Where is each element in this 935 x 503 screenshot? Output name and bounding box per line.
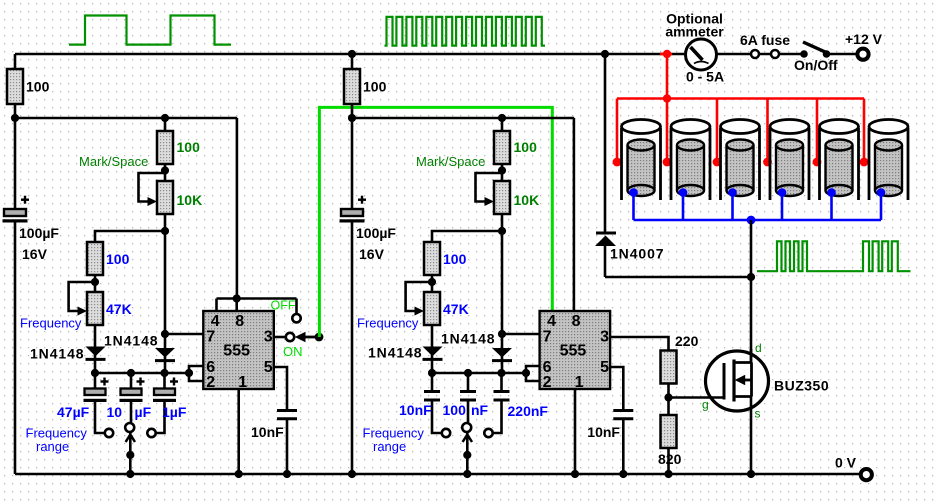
label 100 for R13 xyxy=(106,251,130,267)
svg-text:Frequency: Frequency xyxy=(20,316,82,331)
wire +12V top supply bus xyxy=(15,53,858,56)
pin 8 label U2 xyxy=(572,313,581,330)
label 47K for VR12 xyxy=(106,301,132,317)
wire pin5 U1 xyxy=(274,367,287,411)
svg-text:1N4148: 1N4148 xyxy=(441,331,495,347)
node red bus junction xyxy=(663,94,671,102)
label 10K for VR11 xyxy=(177,192,203,208)
node caps bus junction B osc 2 xyxy=(464,369,472,377)
svg-text:2: 2 xyxy=(543,374,552,391)
wire timing chain vertical osc 1 xyxy=(164,118,167,373)
waveform gated pulse bursts (output to cells) xyxy=(757,241,911,271)
label 10nF xyxy=(399,402,432,418)
svg-text:10nF: 10nF xyxy=(399,402,432,418)
transistor Q1 BUZ350 body xyxy=(706,351,769,411)
terminal range select right osc 1 xyxy=(147,429,155,437)
node pin1 ground junction osc 1 xyxy=(235,470,243,478)
svg-text:10nF: 10nF xyxy=(251,424,284,440)
svg-text:100: 100 xyxy=(443,251,467,267)
pin 6 label U2 xyxy=(543,359,552,376)
terminal +12V xyxy=(857,49,868,60)
label 10nF for C25 xyxy=(587,424,620,440)
svg-text:100: 100 xyxy=(106,251,130,267)
label Frequency (range) osc 2 xyxy=(363,426,425,441)
pin 1 label U2 xyxy=(575,374,584,391)
node drain wire junction xyxy=(747,273,755,281)
capacitor C13 10uF electrolytic xyxy=(120,373,145,423)
wire pot to diode D11 xyxy=(94,325,97,373)
wire drain inside xyxy=(750,349,753,363)
label 1N4007 xyxy=(610,246,664,262)
label 1uF xyxy=(162,404,187,420)
wire gate xyxy=(669,396,723,399)
label 1N4148 for D22 xyxy=(441,331,495,347)
node wiper junction osc 2 xyxy=(463,451,471,459)
op-amp timer U1 555 body xyxy=(203,311,273,389)
label +12 V xyxy=(845,31,883,47)
label 47K for VR22 xyxy=(443,301,469,317)
waveform slow square wave (oscillator 1 output) xyxy=(69,16,231,45)
node caps bus junction D osc 1 xyxy=(185,369,193,377)
resistor R21 100 (supply dropper) xyxy=(344,69,360,104)
svg-text:µF: µF xyxy=(135,404,152,420)
diode D11 1N4148 xyxy=(86,347,106,360)
label BUZ350 xyxy=(774,378,829,394)
cell 1 outer jar xyxy=(622,120,661,201)
wire blue cathode drop 5 xyxy=(830,193,833,221)
pin 7 label U1 xyxy=(206,329,215,346)
svg-text:100: 100 xyxy=(26,79,50,95)
node red anode contact 4 xyxy=(763,158,772,167)
label ammeter xyxy=(665,24,724,40)
label range osc 1 xyxy=(36,439,69,454)
pin 2 label U2 xyxy=(543,374,552,391)
cell 3 outer jar xyxy=(721,120,760,201)
node red supply tap xyxy=(663,50,671,58)
wire blue cathode drop 2 xyxy=(682,193,685,221)
svg-text:10K: 10K xyxy=(514,192,540,208)
node blue cathode contact 5 xyxy=(827,188,836,197)
transistor Q1 internals xyxy=(724,360,752,402)
cell 4 inner electrode xyxy=(776,140,803,197)
svg-text:1µF: 1µF xyxy=(162,404,187,420)
label 820 for R6 xyxy=(658,451,682,467)
pin 8 label U1 xyxy=(235,313,244,330)
pin 2 label U1 xyxy=(206,374,215,391)
wire red anode drop 5 xyxy=(816,99,819,163)
node R13/VR12 junction xyxy=(91,278,99,286)
pin 3 label U2 xyxy=(600,329,609,346)
node rail ground junction osc 2 xyxy=(348,470,356,478)
pin 5 label U1 xyxy=(264,359,273,376)
diode D22 1N4148 xyxy=(492,348,512,361)
svg-text:100µF: 100µF xyxy=(356,225,396,241)
potentiometer VR11 10K mark/space xyxy=(139,173,174,214)
wire pin7 U1 to timing chain xyxy=(165,333,203,336)
wire blue cathode bus xyxy=(634,219,882,222)
pin 5 label U2 xyxy=(600,359,609,376)
wire left supply rail oscillator 2 upper xyxy=(351,54,354,210)
node red anode contact 1 xyxy=(613,158,622,167)
node wiper junction osc 1 xyxy=(126,451,134,459)
node pin5 cap ground junction osc 2 xyxy=(619,470,627,478)
label 10 (10uF left part) xyxy=(107,404,123,420)
node timing chain top junction osc 1 xyxy=(161,114,169,122)
label g (gate) xyxy=(702,398,709,412)
wire green enable link (osc1 out to osc2 reset) xyxy=(319,107,552,337)
svg-text:Mark/Space: Mark/Space xyxy=(416,154,485,169)
pin 7 label U2 xyxy=(543,329,552,346)
terminal range select mid osc 1 xyxy=(125,423,134,432)
node pin7 junction osc 1 xyxy=(161,330,169,338)
svg-text:2: 2 xyxy=(206,374,215,391)
svg-text:3: 3 xyxy=(600,329,609,346)
node R22/pot junction xyxy=(498,166,506,174)
terminal 0V xyxy=(861,469,872,480)
svg-text:16V: 16V xyxy=(22,246,48,262)
svg-text:Frequency: Frequency xyxy=(357,316,419,331)
label 100uF for C11 xyxy=(19,225,59,241)
svg-text:On/Off: On/Off xyxy=(794,57,838,73)
wire 555 pins 6-2 bracket osc 2 xyxy=(526,366,540,381)
node switch to green wire junction xyxy=(315,333,324,342)
wire blue cathode drop 4 xyxy=(781,193,784,221)
label 0 - 5A xyxy=(686,69,724,85)
wire red anode drop 2 xyxy=(666,99,669,163)
switch S1 On/Off xyxy=(800,42,830,58)
pin 6 label U1 xyxy=(206,359,215,376)
node top bus to diode junction xyxy=(601,50,609,58)
wire left supply rail oscillator 1 upper xyxy=(14,54,17,210)
wire drain line xyxy=(750,220,753,364)
node caps bus junction B osc 1 xyxy=(127,369,135,377)
wire 0V bottom ground bus xyxy=(15,473,861,476)
label Optional xyxy=(666,11,723,27)
wire timing capacitor bus osc 2 xyxy=(432,372,526,375)
label 6A fuse xyxy=(740,32,790,48)
wire local bus oscillator 1 xyxy=(15,118,237,299)
wire local bus oscillator 2 xyxy=(352,118,574,311)
cell 6 outer jar xyxy=(869,120,908,201)
label On/Off xyxy=(794,57,838,73)
label 16V for C21 xyxy=(359,246,385,262)
cell 3 inner electrode xyxy=(727,140,754,197)
wire diode feed vertical xyxy=(604,54,607,232)
resistor R11 100 (supply dropper) xyxy=(7,69,23,104)
capacitor C12 47uF electrolytic xyxy=(84,373,109,433)
label ON xyxy=(283,344,303,359)
node gate junction xyxy=(664,393,672,401)
wire 555 pins 6-2 bracket osc 1 xyxy=(189,366,203,381)
wire pin3 U1 to switch xyxy=(274,336,286,339)
cell 2 inner electrode xyxy=(677,140,704,197)
cell 5 outer jar xyxy=(820,120,859,201)
wire red anode drop 6 xyxy=(863,99,866,163)
capacitor C15 10nF (pin5) xyxy=(277,411,297,475)
node blue bus center junction xyxy=(747,216,756,225)
node blue cathode contact 1 xyxy=(629,188,638,197)
svg-text:0 V: 0 V xyxy=(835,455,857,471)
svg-text:7: 7 xyxy=(543,329,552,346)
svg-text:ON: ON xyxy=(283,344,303,359)
svg-text:100: 100 xyxy=(443,402,467,418)
svg-text:100: 100 xyxy=(514,139,538,155)
node source ground junction xyxy=(747,470,755,478)
label d (drain) xyxy=(755,341,762,355)
wire diode to drain node xyxy=(605,276,751,279)
resistor R12 100 green (mark/space upper) xyxy=(157,131,173,164)
node caps bus junction A osc 1 xyxy=(91,369,99,377)
cell 6 inner electrode xyxy=(875,140,902,197)
svg-text:47K: 47K xyxy=(443,301,469,317)
pin 1 label U1 xyxy=(238,374,247,391)
node caps bus junction A osc 2 xyxy=(428,369,436,377)
label nF (100nF right part) xyxy=(471,402,489,418)
wire R13 to pot xyxy=(94,275,97,292)
label 10nF for C15 xyxy=(251,424,284,440)
pin 3 label U1 xyxy=(264,329,273,346)
svg-text:ammeter: ammeter xyxy=(665,24,724,40)
node red anode contact 5 xyxy=(813,158,822,167)
svg-text:10K: 10K xyxy=(177,192,203,208)
switch wiper frequency range osc 2 xyxy=(463,433,472,474)
wire red anode drop 1 xyxy=(616,99,619,163)
svg-text:100: 100 xyxy=(363,79,387,95)
capacitor C11 100uF 16V electrolytic xyxy=(3,196,30,223)
terminal range select left osc 2 xyxy=(442,429,450,437)
svg-text:4: 4 xyxy=(211,313,220,330)
node top bus osc2 junction xyxy=(348,50,356,58)
wire R13 top to timing chain xyxy=(95,231,165,242)
resistor R13 100 blue (frequency upper) xyxy=(87,242,103,275)
label uF (10uF right part) xyxy=(135,404,152,420)
svg-text:1N4148: 1N4148 xyxy=(30,346,84,362)
wire pin5 U2 xyxy=(610,367,623,411)
wire divider middle xyxy=(667,384,670,416)
label Frequency (range) osc 1 xyxy=(26,426,88,441)
wire red anode drop 3 xyxy=(716,99,719,163)
label OFF xyxy=(271,299,296,313)
node blue cathode contact 4 xyxy=(778,188,787,197)
label 47uF xyxy=(57,404,90,420)
node blue cathode contact 2 xyxy=(679,188,688,197)
node timing chain / R13 wire junction xyxy=(161,227,169,235)
wire red anode drop 4 xyxy=(766,99,769,163)
label 1N4148 for D21 xyxy=(368,345,422,361)
wire blue cathode drop 1 xyxy=(632,193,635,221)
wire red feed down xyxy=(666,54,669,99)
wire pins 4/8 top tee U1 xyxy=(217,299,297,315)
svg-text:47µF: 47µF xyxy=(57,404,90,420)
label 1N4148 for D11 xyxy=(30,346,84,362)
svg-text:3: 3 xyxy=(264,329,273,346)
wire source line xyxy=(750,397,753,475)
svg-text:100µF: 100µF xyxy=(19,225,59,241)
svg-text:4: 4 xyxy=(547,313,556,330)
svg-text:220nF: 220nF xyxy=(508,403,549,419)
node R6 ground junction xyxy=(664,470,672,478)
label 100 for R21 xyxy=(363,79,387,95)
svg-text:10nF: 10nF xyxy=(587,424,620,440)
wire left supply rail oscillator 2 lower xyxy=(351,221,354,474)
svg-text:1N4007: 1N4007 xyxy=(610,246,664,262)
label Mark/Space osc 2 xyxy=(416,154,485,169)
node caps bus junction D osc 2 xyxy=(522,369,530,377)
capacitor C24 220nF ceramic xyxy=(494,373,510,433)
svg-text:8: 8 xyxy=(572,313,581,330)
wire blue cathode drop 3 xyxy=(731,193,734,221)
cell 1 inner electrode xyxy=(628,140,655,197)
wire R23 top to timing chain xyxy=(432,231,502,242)
svg-text:220: 220 xyxy=(675,333,699,349)
svg-text:555: 555 xyxy=(223,343,250,360)
cell 2 outer jar xyxy=(671,120,710,201)
resistor R6 820 (gate lower) xyxy=(661,415,677,448)
wire R6 to ground xyxy=(667,448,670,474)
terminal range select right osc 2 xyxy=(484,429,492,437)
node caps bus junction C osc 2 xyxy=(497,369,505,377)
terminal range select left osc 1 xyxy=(105,429,113,437)
svg-text:range: range xyxy=(373,439,406,454)
node red anode contact 3 xyxy=(713,158,722,167)
op-amp timer U2 555 body xyxy=(540,311,611,389)
pin 4 label U2 xyxy=(547,313,556,330)
wire pin7 U2 to timing chain xyxy=(502,333,540,336)
node timing chain / R23 wire junction xyxy=(498,227,506,235)
terminal OFF xyxy=(292,314,300,322)
node red anode contact 6 xyxy=(860,158,869,167)
cell 4 outer jar xyxy=(770,120,809,201)
pin 4 label U1 xyxy=(211,313,220,330)
svg-text:1N4148: 1N4148 xyxy=(104,333,158,349)
svg-text:555: 555 xyxy=(560,343,587,360)
node pins 4/8 tee junction xyxy=(233,294,241,302)
svg-text:5: 5 xyxy=(600,359,609,376)
label 100 for R23 xyxy=(443,251,467,267)
fuse F1 6A xyxy=(751,50,779,58)
label Frequency (pot) osc 2 xyxy=(357,316,419,331)
wire pin1 U1 to ground xyxy=(237,389,240,474)
label 220nF xyxy=(508,403,549,419)
svg-text:5: 5 xyxy=(264,359,273,376)
svg-text:100: 100 xyxy=(177,139,201,155)
svg-text:16V: 16V xyxy=(359,246,385,262)
label Mark/Space osc 1 xyxy=(79,154,148,169)
svg-text:d: d xyxy=(755,341,762,355)
label 100 (100nF left part) xyxy=(443,402,467,418)
potentiometer VR21 10K mark/space xyxy=(476,173,511,214)
svg-text:g: g xyxy=(702,398,709,412)
diode D12 1N4148 xyxy=(155,348,175,361)
svg-text:nF: nF xyxy=(471,402,489,418)
wire timing capacitor bus osc 1 xyxy=(95,372,189,375)
svg-text:+12 V: +12 V xyxy=(845,31,883,47)
switch run/stop arm xyxy=(295,332,319,342)
svg-text:BUZ350: BUZ350 xyxy=(774,378,829,394)
meter M1 ammeter xyxy=(686,39,717,70)
label 100 for R12 xyxy=(177,139,201,155)
wire left supply rail oscillator 1 lower xyxy=(14,221,17,474)
resistor R5 220 (gate upper) xyxy=(661,351,677,384)
capacitor C25 10nF (pin5) xyxy=(613,411,633,475)
node timing chain top junction osc 2 xyxy=(498,114,506,122)
svg-text:1: 1 xyxy=(238,374,247,391)
label Frequency (pot) osc 1 xyxy=(20,316,82,331)
node pin5 cap ground junction osc 1 xyxy=(283,470,291,478)
node wiper ground junction osc 1 xyxy=(126,470,134,478)
svg-text:s: s xyxy=(755,407,761,421)
svg-text:10: 10 xyxy=(107,404,123,420)
wire R23 to pot xyxy=(431,275,434,292)
capacitor C23 100nF ceramic xyxy=(460,373,476,423)
wire timing chain vertical osc 2 xyxy=(501,118,504,373)
label 16V for C11 xyxy=(22,246,48,262)
label 1N4148 for D12 xyxy=(104,333,158,349)
label 220 for R5 xyxy=(675,333,699,349)
node pin1 ground junction osc 2 xyxy=(571,470,579,478)
svg-text:6A fuse: 6A fuse xyxy=(740,32,790,48)
svg-text:Mark/Space: Mark/Space xyxy=(79,154,148,169)
label 555 U1 xyxy=(223,343,250,360)
wire blue cathode drop 6 xyxy=(880,193,883,221)
label 100 for R22 xyxy=(514,139,538,155)
resistor R23 100 blue (frequency upper) xyxy=(424,242,440,275)
waveform fast square wave (oscillator 2 output) xyxy=(385,17,546,46)
diode D21 1N4148 xyxy=(423,347,443,360)
wire red anode bus xyxy=(617,97,864,100)
node caps bus junction C osc 1 xyxy=(160,369,168,377)
label s (source) xyxy=(755,407,761,421)
svg-text:47K: 47K xyxy=(106,301,132,317)
label 555 U2 xyxy=(560,343,587,360)
label 0 V xyxy=(835,455,857,471)
wire pin1 U2 to ground xyxy=(574,389,577,474)
node wiper ground junction osc 2 xyxy=(463,470,471,478)
svg-text:0 - 5A: 0 - 5A xyxy=(686,69,724,85)
capacitor C14 1uF electrolytic xyxy=(153,373,178,433)
potentiometer VR12 47K frequency xyxy=(69,282,103,325)
switch wiper frequency range osc 1 xyxy=(126,433,135,474)
label 10K for VR21 xyxy=(514,192,540,208)
svg-text:8: 8 xyxy=(235,313,244,330)
label range osc 2 xyxy=(373,439,406,454)
svg-text:1: 1 xyxy=(575,374,584,391)
capacitor C21 100uF 16V electrolytic xyxy=(340,196,367,223)
wire red supply stub xyxy=(660,53,672,56)
capacitor C22 10nF ceramic xyxy=(424,373,442,433)
wire pin3 U2 to gate divider xyxy=(610,337,668,351)
svg-text:range: range xyxy=(36,439,69,454)
label 100 for R11 xyxy=(26,79,50,95)
svg-text:1N4148: 1N4148 xyxy=(368,345,422,361)
node R12/pot junction xyxy=(161,166,169,174)
node supply rail / local bus junction osc 1 xyxy=(11,114,19,122)
potentiometer VR22 47K frequency xyxy=(406,282,440,325)
node pin7 junction osc 2 xyxy=(498,330,506,338)
terminal ON xyxy=(286,333,294,341)
node blue cathode contact 6 xyxy=(877,188,886,197)
diode D5 1N4007 xyxy=(595,233,616,277)
svg-text:7: 7 xyxy=(206,329,215,346)
label 100uF for C21 xyxy=(356,225,396,241)
terminal range select mid osc 2 xyxy=(462,423,471,432)
node red anode contact 2 xyxy=(663,158,672,167)
cell 5 inner electrode xyxy=(826,140,853,197)
node supply rail / local bus junction osc 2 xyxy=(348,114,356,122)
node R23/VR22 junction xyxy=(428,278,436,286)
wire pot to diode D21 xyxy=(431,325,434,373)
node blue cathode contact 3 xyxy=(728,188,737,197)
